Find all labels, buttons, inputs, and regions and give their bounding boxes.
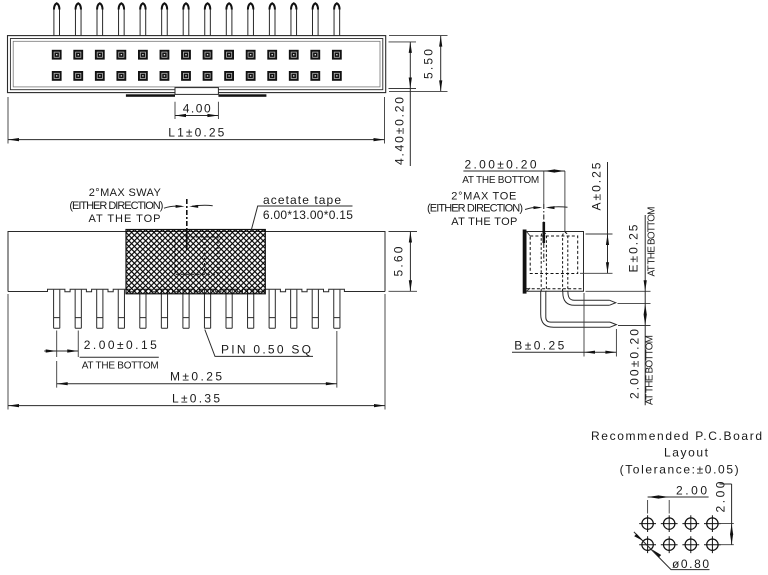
svg-text:AT THE BOTTOM: AT THE BOTTOM bbox=[462, 175, 539, 186]
bent lead from rear pin (upper) bbox=[563, 291, 616, 305]
svg-text:E±0.25: E±0.25 bbox=[627, 224, 641, 272]
pins row (top view), 14 straight pins bbox=[54, 3, 340, 36]
svg-text:4.40±0.20: 4.40±0.20 bbox=[392, 97, 406, 165]
dimension L±0.35 bbox=[8, 294, 385, 410]
svg-text:(EITHER DIRECTION): (EITHER DIRECTION) bbox=[69, 200, 163, 212]
14 square pin legs (front view) bbox=[54, 290, 340, 329]
svg-text:(EITHER DIRECTION): (EITHER DIRECTION) bbox=[427, 203, 523, 215]
svg-text:6.00*13.00*0.15: 6.00*13.00*0.15 bbox=[263, 208, 353, 222]
sway note text bbox=[69, 187, 163, 225]
body outline (side view) bbox=[526, 232, 584, 292]
svg-text:2.00: 2.00 bbox=[714, 481, 728, 512]
dimension B±0.25 bbox=[512, 293, 616, 357]
svg-text:AT THE BOTTOM: AT THE BOTTOM bbox=[644, 335, 655, 405]
pad row 2 bbox=[639, 536, 721, 553]
svg-text:2.00±0.15: 2.00±0.15 bbox=[84, 338, 157, 352]
svg-text:2°MAX SWAY: 2°MAX SWAY bbox=[89, 187, 162, 199]
contact squares row 1 (top view) bbox=[52, 50, 342, 60]
svg-text:acetate tape: acetate tape bbox=[263, 193, 341, 207]
svg-text:M±0.25: M±0.25 bbox=[170, 369, 222, 383]
svg-text:AT THE TOP: AT THE TOP bbox=[451, 216, 517, 228]
dimension 5.60 (body height, right) bbox=[389, 232, 418, 292]
acetate tape leader and label bbox=[252, 193, 354, 229]
dimension 2.00±0.15 (pin pitch at bottom) bbox=[44, 331, 159, 372]
housing body (top view) triple border bbox=[8, 36, 386, 93]
toe note text bbox=[427, 190, 523, 228]
dimension 2.00 horizontal (pad pitch) bbox=[648, 483, 709, 513]
PIN 0.50 SQ label with leader bbox=[205, 330, 313, 357]
svg-text:AT THE BOTTOM: AT THE BOTTOM bbox=[647, 207, 658, 277]
svg-text:AT THE TOP: AT THE TOP bbox=[89, 213, 161, 225]
toe leader arrows (wavy) bbox=[525, 206, 568, 209]
svg-text:5.50: 5.50 bbox=[422, 49, 436, 79]
svg-text:4.00: 4.00 bbox=[183, 101, 211, 115]
hidden cavity dashed rect (side view) bbox=[530, 236, 578, 274]
body bottom edge with standoff notches (front view) bbox=[8, 289, 385, 292]
dimension 4.40±0.20 bbox=[389, 42, 417, 166]
tape edge strip (top view, right segment) bbox=[218, 94, 266, 97]
hidden line near bottom (side view) bbox=[527, 288, 584, 290]
dimension M±0.25 bbox=[57, 331, 337, 388]
mating face thick bar (side view left) bbox=[523, 230, 527, 294]
acetate tape crosshatched (front view) bbox=[126, 230, 265, 294]
tape edge strip (top view, left segment) bbox=[126, 94, 175, 97]
toe centerline dash-dot with solid tip bbox=[543, 204, 545, 262]
svg-text:A±0.25: A±0.25 bbox=[590, 162, 604, 210]
dimension 4.00 (notch width) bbox=[175, 101, 218, 119]
dimension A±0.25 bbox=[580, 162, 613, 273]
heading text bbox=[591, 429, 762, 477]
bent lead from front pin (lower) bbox=[541, 291, 617, 327]
svg-text:B±0.25: B±0.25 bbox=[514, 338, 564, 352]
dimension L1±0.25 (housing length) bbox=[8, 97, 385, 144]
svg-text:2.00±0.20: 2.00±0.20 bbox=[465, 157, 537, 171]
pad row 1 bbox=[639, 515, 721, 532]
polarizing notch (top view) bbox=[175, 88, 218, 95]
svg-text:2.00: 2.00 bbox=[676, 483, 707, 497]
sway leader arrows (wavy) bbox=[164, 205, 213, 208]
svg-text:2.00±0.20: 2.00±0.20 bbox=[627, 329, 641, 399]
corner chamfers (side view) bbox=[527, 232, 531, 292]
dimension 2.00±0.20 at top (row pitch) bbox=[462, 157, 565, 231]
dimension E±0.25 and 2.00±0.20 shared line bbox=[586, 207, 658, 406]
svg-text:AT THE BOTTOM: AT THE BOTTOM bbox=[82, 361, 159, 372]
ø0.80 leader with diameter arrows bbox=[634, 532, 710, 571]
hidden pin B outline (rear pin, dashed) bbox=[563, 232, 568, 291]
insulator body outline (front view) bbox=[8, 232, 385, 292]
svg-text:Recommended P.C.Board: Recommended P.C.Board bbox=[591, 429, 762, 443]
hidden pin A outline (front pin, dashed) bbox=[541, 232, 546, 291]
svg-text:2°MAX TOE: 2°MAX TOE bbox=[451, 190, 516, 202]
svg-text:ø0.80: ø0.80 bbox=[672, 557, 709, 571]
sway centerline (dash-dot) bbox=[186, 199, 188, 230]
dimension 2.00 vertical (row pitch) bbox=[714, 481, 734, 545]
hidden contact cavity dashed rect (under tape) bbox=[175, 237, 218, 274]
svg-text:(Tolerance:±0.05): (Tolerance:±0.05) bbox=[620, 463, 739, 477]
dimension 5.50 (housing height, right) bbox=[389, 36, 448, 92]
contact squares row 2 (top view) bbox=[52, 71, 342, 81]
svg-text:5.60: 5.60 bbox=[391, 246, 405, 276]
